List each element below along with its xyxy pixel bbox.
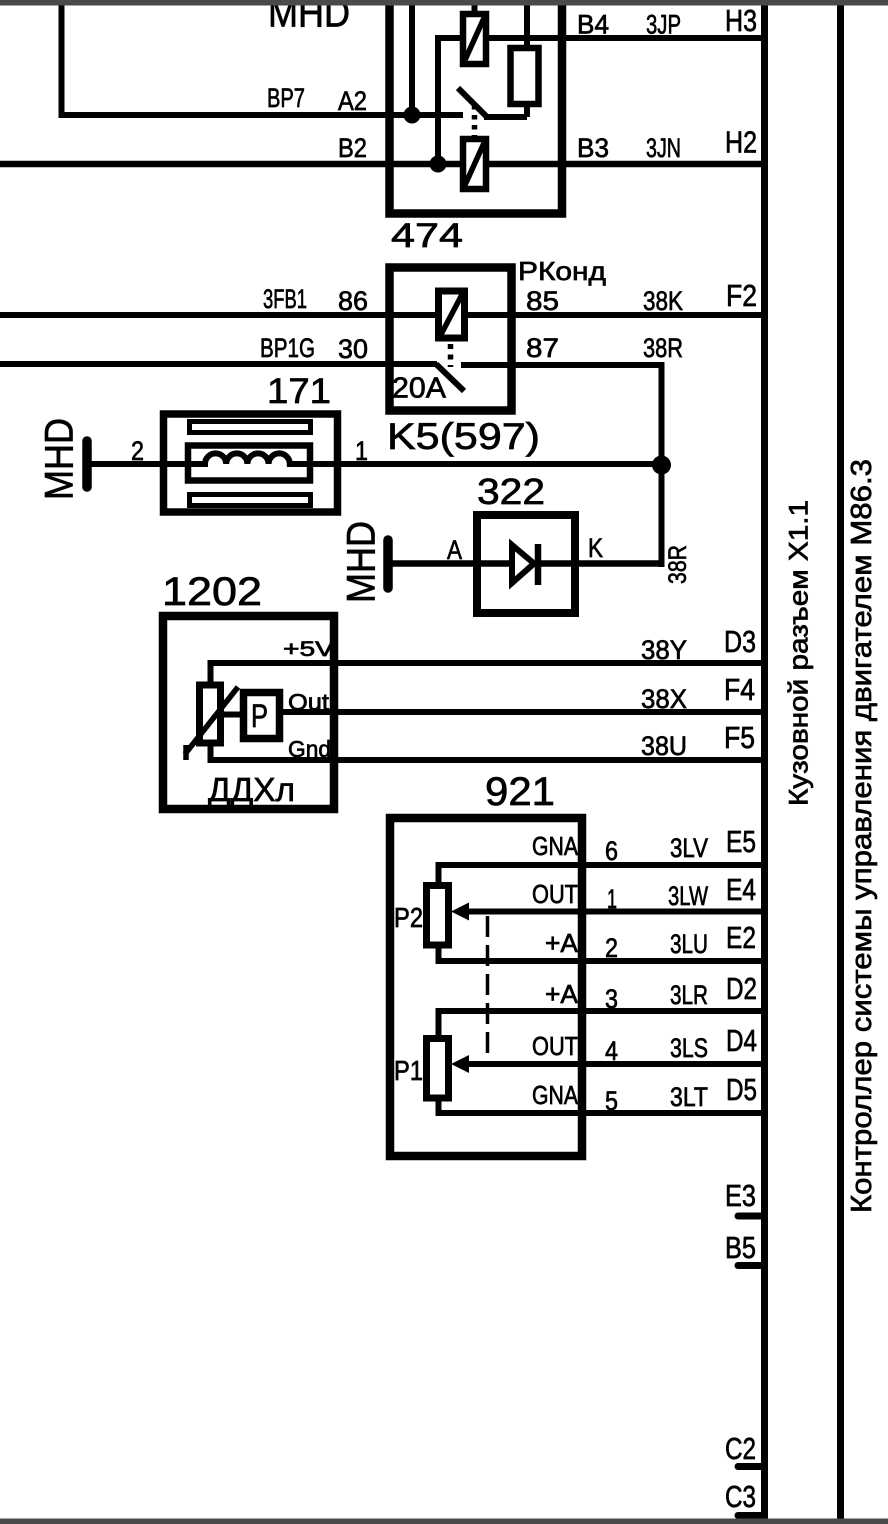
svg-text:D2: D2 — [726, 971, 757, 1006]
svg-text:3LU: 3LU — [670, 929, 708, 959]
relay coil K5 — [439, 291, 465, 338]
sensor box 1202 — [163, 616, 334, 809]
svg-text:38X: 38X — [641, 684, 687, 714]
thermistor bottom stub — [208, 744, 214, 763]
svg-text:A: A — [447, 535, 462, 565]
svg-text:4: 4 — [605, 1036, 618, 1066]
svg-text:C2: C2 — [725, 1431, 756, 1466]
wire Gnd/38U to F5 — [208, 757, 762, 763]
wire GNA/5/3LT to D5 — [436, 1110, 762, 1116]
svg-text:3LS: 3LS — [670, 1033, 708, 1063]
wire +A/3/3LR to D2 — [436, 1008, 762, 1014]
svg-text:38R: 38R — [664, 545, 692, 584]
svg-text:3JN: 3JN — [646, 133, 681, 163]
wire 3FB1/86 — [0, 312, 437, 318]
svg-text:3: 3 — [605, 984, 618, 1014]
wire B3/3JN to H2 — [487, 161, 761, 168]
svg-text:474: 474 — [391, 217, 463, 255]
svg-text:3JP: 3JP — [646, 10, 681, 40]
svg-text:H2: H2 — [725, 125, 757, 160]
svg-text:1: 1 — [607, 884, 617, 914]
svg-text:Gnd: Gnd — [288, 736, 331, 762]
svg-text:38R: 38R — [643, 333, 683, 363]
stub E3 — [738, 1213, 761, 1220]
ground bar MHD (171) — [82, 441, 92, 487]
bottom banner — [0, 1519, 888, 1524]
wire OUT/4/3LS to D4 — [465, 1061, 761, 1067]
mechanical link (dashed) — [486, 916, 490, 1063]
svg-text:H3: H3 — [725, 3, 757, 38]
svg-text:C3: C3 — [725, 1479, 756, 1514]
switch arm K5 — [436, 364, 464, 391]
svg-text:E5: E5 — [726, 824, 756, 859]
svg-text:38U: 38U — [641, 731, 687, 761]
diode (322) — [512, 544, 538, 585]
wire pin 2 (171 to ground) — [90, 461, 190, 467]
svg-text:РКонд: РКонд — [518, 256, 606, 286]
wire BP1G/30 — [0, 361, 437, 367]
svg-text:B3: B3 — [577, 133, 609, 163]
svg-text:E2: E2 — [726, 920, 756, 955]
wire B4 left segment — [435, 35, 462, 41]
wire Out/38X to F4 — [281, 709, 761, 715]
node A2 junction — [404, 107, 421, 124]
body connector X1.1 bus — [761, 0, 768, 1524]
svg-text:F4: F4 — [724, 672, 755, 707]
wire (vertical into relay 474 top) — [409, 0, 415, 115]
inductor frame (171) — [188, 446, 310, 481]
svg-text:B5: B5 — [725, 1230, 756, 1265]
svg-text:+A: +A — [545, 928, 579, 958]
stub C3 — [738, 1512, 761, 1519]
relay box 474 — [390, 0, 563, 214]
actuator link (dashed, K5) — [448, 344, 454, 367]
ground bar MHD (322) — [383, 540, 393, 588]
svg-text:30: 30 — [338, 334, 368, 364]
actuator link (dashed, relay 474) — [472, 105, 478, 137]
svg-text:MHD: MHD — [38, 418, 82, 500]
contact bar top (171) — [190, 422, 311, 433]
svg-text:2: 2 — [131, 436, 144, 466]
inductor winding (171) — [191, 453, 307, 464]
wire (switch fixed to resistor) — [484, 114, 527, 120]
wire 38R vertical — [659, 362, 665, 567]
switch arm (relay 474) — [458, 88, 487, 117]
P element box (1202) — [244, 693, 280, 739]
wire anode (MHD to 322) — [390, 560, 512, 567]
svg-text:BP1G: BP1G — [260, 333, 315, 363]
svg-text:D3: D3 — [724, 624, 756, 659]
thermistor (1202) — [200, 685, 221, 743]
node B2 junction — [430, 156, 447, 173]
svg-text:2: 2 — [605, 933, 618, 963]
svg-text:921: 921 — [485, 770, 555, 814]
svg-text:P2: P2 — [394, 902, 423, 933]
svg-text:OUT: OUT — [532, 1031, 578, 1061]
svg-text:B2: B2 — [338, 133, 367, 163]
wire 85/38K to F2 — [466, 312, 761, 318]
relay 474 coil winding (upper) — [463, 14, 486, 64]
svg-text:1: 1 — [355, 436, 368, 466]
node 38R junction — [652, 456, 671, 475]
svg-text:K5(597): K5(597) — [387, 416, 540, 457]
svg-text:A2: A2 — [338, 86, 367, 116]
svg-text:38Y: 38Y — [641, 635, 687, 665]
svg-text:38K: 38K — [643, 286, 683, 316]
svg-text:D4: D4 — [726, 1023, 757, 1058]
svg-text:GNA: GNA — [532, 1080, 579, 1110]
relay box K5 — [390, 268, 512, 411]
svg-text:P: P — [251, 698, 268, 734]
svg-text:3LR: 3LR — [670, 980, 708, 1010]
diode box 322 — [477, 515, 575, 613]
wire cathode (322 to node 38R) — [538, 560, 665, 567]
stub C2 — [738, 1463, 761, 1470]
svg-text:GNA: GNA — [532, 831, 579, 861]
connector box 171 — [164, 414, 338, 512]
svg-text:3LW: 3LW — [668, 881, 708, 911]
thermistor strike foot — [183, 745, 189, 760]
wire P1 bottom corner — [436, 1100, 442, 1116]
contact bar bottom (171) — [190, 495, 311, 506]
svg-text:D5: D5 — [726, 1072, 757, 1107]
P1 potentiometer — [427, 1039, 449, 1099]
svg-text:MHD: MHD — [340, 521, 384, 603]
wire 87/38R horizontal — [461, 362, 665, 368]
svg-text:86: 86 — [338, 286, 368, 316]
thermistor strike line — [185, 687, 238, 754]
svg-text:Кузовной разъем X1.1: Кузовной разъем X1.1 — [784, 500, 814, 806]
svg-text:85: 85 — [526, 286, 559, 316]
svg-text:87: 87 — [526, 333, 559, 363]
svg-text:E3: E3 — [725, 1178, 756, 1213]
svg-text:OUT: OUT — [532, 879, 578, 909]
svg-text:3FB1: 3FB1 — [263, 284, 307, 314]
svg-text:5: 5 — [605, 1086, 618, 1116]
wiper arrow P2 — [451, 903, 469, 921]
wire +5V corner vertical — [208, 660, 214, 682]
svg-text:1202: 1202 — [162, 570, 262, 614]
svg-text:ДДХл: ДДХл — [208, 771, 295, 808]
wire OUT/1/3LW to E4 — [465, 909, 761, 915]
wire B2 — [0, 161, 462, 168]
wire +5V/38Y to D3 — [208, 660, 762, 666]
svg-text:F5: F5 — [724, 720, 755, 755]
resistor (relay 474 internal) — [511, 48, 539, 104]
svg-text:E4: E4 — [726, 872, 756, 907]
svg-text:BP7: BP7 — [267, 83, 305, 113]
wire B4/3JP to H3 — [487, 35, 761, 41]
wire (resistor bottom to switch) — [524, 104, 530, 117]
svg-text:Контроллер системы управления: Контроллер системы управления двигателем… — [846, 459, 878, 1213]
wire (left vertical to A2) — [59, 4, 65, 118]
relay 474 coil winding (lower) — [463, 139, 486, 189]
svg-text:F2: F2 — [726, 278, 757, 313]
sensor box 921 — [390, 818, 582, 1156]
svg-text:+A: +A — [545, 979, 579, 1009]
top banner — [0, 0, 888, 6]
wire BP7/A2 — [59, 112, 464, 118]
wire (B4 corner vertical) — [435, 35, 441, 164]
svg-text:K: K — [588, 533, 603, 563]
wire P1 top corner — [436, 1008, 442, 1036]
wire GNA/6/3LV to E5 — [436, 862, 762, 868]
stub B5 — [738, 1262, 761, 1269]
wiper arrow P1 — [451, 1055, 469, 1073]
wire (coil top stub) — [472, 0, 478, 13]
svg-text:171: 171 — [267, 372, 331, 411]
svg-text:P1: P1 — [394, 1055, 423, 1086]
svg-text:3LV: 3LV — [670, 833, 708, 863]
wire +A/2/3LU to E2 — [436, 958, 762, 964]
wire thermistor to P element — [222, 712, 242, 718]
svg-text:+5V: +5V — [283, 638, 334, 661]
P2 potentiometer — [427, 886, 449, 946]
controller bus — [837, 0, 844, 1524]
svg-text:6: 6 — [605, 836, 618, 866]
svg-text:3LT: 3LT — [670, 1082, 708, 1112]
wire P2 bottom corner — [436, 945, 442, 963]
wire pin 1 (171 to node 38R) — [308, 461, 665, 467]
svg-text:B4: B4 — [577, 10, 609, 40]
wire (resistor top vertical) — [524, 0, 530, 48]
wire P2 top corner — [436, 862, 442, 883]
svg-text:Out: Out — [288, 689, 330, 715]
svg-text:322: 322 — [477, 471, 545, 512]
svg-text:20A: 20A — [392, 373, 447, 405]
